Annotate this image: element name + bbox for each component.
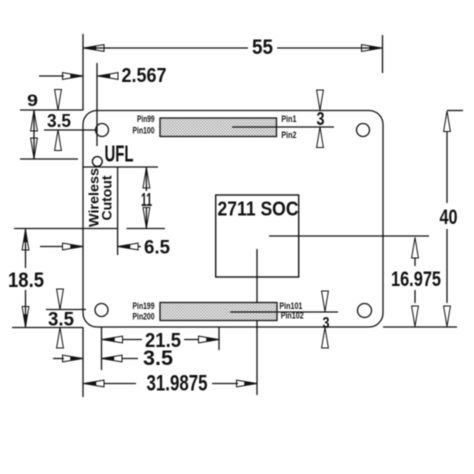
dimension 18.5 arrow top	[22, 230, 29, 251]
svg-text:Pin99: Pin99	[137, 114, 155, 125]
extension line board top extended left	[20, 109, 83, 111]
svg-text:Pin2: Pin2	[281, 130, 296, 141]
extension line board top extended right	[447, 110, 463, 112]
extension line board bottom extended left	[12, 327, 83, 329]
extension line left edge above board	[82, 34, 84, 111]
label Pin101	[279, 301, 303, 312]
dimension 6.5 text	[144, 238, 170, 259]
dimension 2.567 arrow left	[63, 73, 84, 80]
dimension 3.5BL arrow top	[57, 289, 64, 310]
mounting hole top-left	[96, 124, 109, 137]
dimension 16.975 line top	[414, 258, 416, 267]
dimension 16.975 line bottom	[414, 290, 416, 303]
extension line UFL center y159	[20, 158, 78, 160]
svg-text:9: 9	[27, 91, 38, 110]
dimension 3.5BL arrow bottom	[57, 328, 64, 349]
dimension 18.5 arrow bottom	[22, 307, 29, 328]
dimension 16.975 arrow top	[412, 238, 419, 259]
dimension 40 line bottom	[446, 229, 448, 303]
label Pin199	[133, 301, 155, 312]
dimension 3.5TL text	[47, 111, 71, 131]
mounting hole top-right	[357, 124, 370, 137]
dimension 55 line	[83, 47, 382, 49]
dimension 31.9875 arrow left	[84, 380, 105, 387]
dimension 16.975 arrow bottom	[412, 306, 419, 327]
svg-text:Pin100: Pin100	[133, 126, 155, 137]
svg-text:Pin1: Pin1	[281, 114, 297, 125]
label Pin200	[133, 312, 155, 323]
label Cutout (rotated)	[99, 175, 115, 220]
dimension 18.5 text	[8, 269, 44, 292]
svg-text:3.5: 3.5	[143, 347, 173, 370]
extension line 55 right	[382, 35, 384, 73]
dimension 3 bottom text	[323, 315, 330, 332]
dimension 6.5 arrow right	[118, 243, 139, 250]
svg-text:11: 11	[141, 190, 152, 210]
dimension 3 top arrow upper	[317, 90, 324, 111]
dimension 3.5B line	[122, 358, 139, 360]
extension line 11 bottom	[127, 228, 166, 230]
label Pin100	[133, 126, 155, 137]
dimension 21.5 arrow left	[102, 336, 123, 343]
dimension 11 line	[145, 167, 147, 229]
dimension 2.567 tail	[39, 75, 64, 77]
2711 SOC label	[218, 199, 299, 221]
dimension 18.5 line	[25, 229, 27, 328]
extension line left edge below board	[82, 327, 84, 397]
dimension 11 text	[141, 190, 152, 210]
dimension 11 arrow top	[143, 168, 150, 189]
dimension 3.5B arrow left	[63, 355, 84, 362]
dimension 31.9875 arrow right	[237, 380, 258, 387]
dimension 21.5 line left	[122, 339, 142, 341]
2711 SOC box	[216, 195, 299, 277]
SOC center leader horizontal	[269, 235, 429, 237]
dimension 40 arrow top	[444, 111, 451, 132]
dimension 6.5 line	[138, 246, 141, 248]
dimension 40 arrow bottom	[444, 306, 451, 327]
dimension 3 top arrow lower	[317, 127, 324, 148]
dimension 3 bottom arrow lower	[322, 328, 329, 349]
UFL connector circle	[92, 157, 102, 167]
svg-text:31.9875: 31.9875	[147, 371, 208, 396]
extension line x219 below board	[218, 327, 220, 351]
mounting hole bottom-right	[358, 304, 372, 318]
svg-text:UFL: UFL	[105, 141, 134, 167]
label Pin1	[281, 114, 297, 125]
svg-text:3.5: 3.5	[47, 111, 71, 131]
SOC center leader vertical	[256, 249, 258, 395]
svg-text:6.5: 6.5	[144, 238, 170, 259]
svg-text:3: 3	[317, 109, 325, 129]
dimension 3 top text	[317, 109, 325, 129]
dimension 3.5B text	[143, 347, 173, 370]
label Pin2	[281, 130, 296, 141]
dimension 3.5BL text	[48, 310, 74, 331]
dimension 21.5 text	[145, 330, 181, 352]
svg-text:Pin199: Pin199	[133, 301, 155, 312]
dimension 31.9875 text	[147, 371, 208, 396]
svg-text:Cutout: Cutout	[99, 175, 115, 220]
svg-text:Pin200: Pin200	[133, 312, 155, 323]
svg-text:3: 3	[323, 315, 330, 332]
dimension 3 bottom arrow upper	[322, 291, 329, 312]
dimension 31.9875 line right	[212, 383, 238, 385]
svg-text:40: 40	[440, 206, 458, 229]
dimension 6.5 tail	[40, 246, 62, 248]
UFL label	[105, 141, 134, 167]
dimension 3.5B arrow right	[102, 355, 123, 362]
svg-text:16.975: 16.975	[391, 268, 441, 291]
dimension 55 arrow left	[84, 45, 105, 52]
dimension 2.567 arrow right	[98, 73, 119, 80]
dimension 55 text	[252, 36, 273, 59]
dimension 3.5TL arrow top	[55, 90, 62, 111]
dimension 40 line top	[446, 131, 448, 203]
wireless cutout top edge	[83, 166, 158, 168]
dimension 16.975 text	[391, 268, 441, 291]
board outline	[83, 111, 383, 328]
dimension 9 arrow bottom	[31, 138, 38, 159]
dimension 21.5 arrow right	[199, 336, 220, 343]
dimension 40 text	[440, 206, 458, 229]
extension line hole center y309	[46, 309, 86, 311]
mounting hole bottom-left	[95, 304, 108, 317]
dimension 9 line	[33, 110, 35, 159]
svg-text:3.5: 3.5	[48, 310, 74, 331]
svg-text:2.567: 2.567	[122, 65, 167, 87]
svg-text:2711 SOC: 2711 SOC	[218, 199, 299, 221]
dimension 9 text	[27, 91, 38, 110]
dimension 11 arrow bottom	[143, 208, 150, 229]
dimension 55 arrow right	[362, 45, 383, 52]
svg-text:18.5: 18.5	[8, 269, 44, 292]
extension line hole center y130	[44, 129, 97, 131]
wireless cutout bottom edge / 18.5 extension	[14, 228, 118, 230]
dimension 2.567 text	[122, 65, 167, 87]
bottom connector strip	[160, 303, 277, 321]
extension line board bottom extended right	[383, 326, 457, 328]
dimension 6.5 arrow left	[63, 243, 84, 250]
dimension 21.5 line right	[184, 339, 199, 341]
extension line hole-center x97	[96, 63, 98, 146]
svg-text:Pin102: Pin102	[281, 310, 304, 321]
dimension 31.9875 line left	[104, 383, 137, 385]
label Pin102	[281, 310, 304, 321]
label Wireless (rotated)	[86, 168, 102, 227]
label Pin99	[137, 114, 155, 125]
dimension 3.5B tail	[53, 358, 64, 360]
dimension 9 arrow top	[31, 111, 38, 132]
pin1 row line	[232, 126, 334, 128]
svg-text:55: 55	[252, 36, 273, 59]
wireless cutout right edge	[117, 167, 119, 255]
pin101 row line	[230, 311, 338, 313]
dimension 3.5TL arrow bottom	[55, 130, 62, 151]
extension line hole center x101 below board	[101, 327, 103, 370]
top connector strip	[160, 118, 277, 137]
